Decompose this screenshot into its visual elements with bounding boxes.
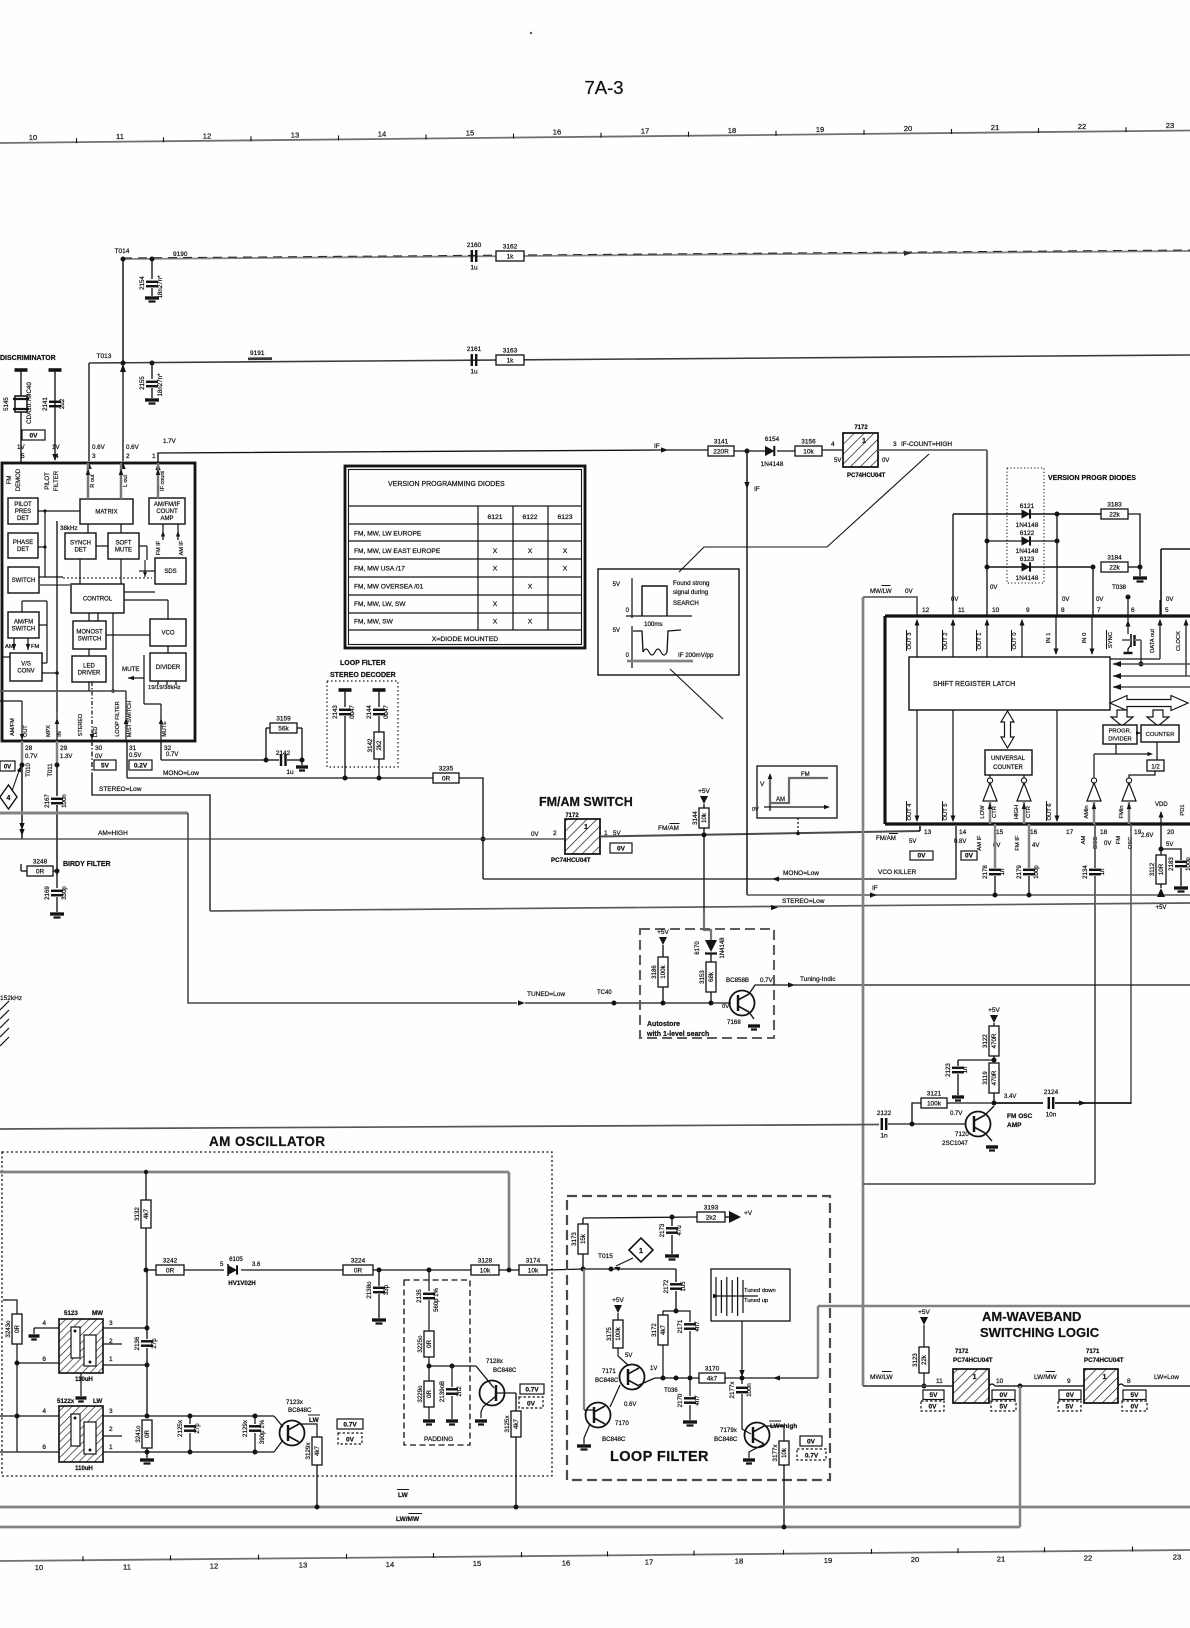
svg-text:0V: 0V [1066, 1392, 1075, 1399]
block SYNCH DET [65, 533, 96, 559]
ceramic discriminator 5145 CDA10.7MC40 [15, 368, 28, 372]
block COUNTER [1141, 725, 1179, 742]
svg-text:3174: 3174 [526, 1258, 541, 1265]
svg-text:CDA10.7MC40: CDA10.7MC40 [26, 382, 33, 424]
svg-text:0V: 0V [1131, 1404, 1140, 1411]
capacitor 2178 [994, 824, 996, 868]
svg-text:12: 12 [922, 607, 930, 614]
voltage box 5V pin30 [94, 760, 116, 770]
svg-text:390p 1%: 390p 1% [259, 1419, 266, 1444]
svg-text:18n27n*: 18n27n* [157, 275, 164, 299]
svg-text:T013: T013 [97, 353, 112, 360]
svg-text:+5V: +5V [657, 929, 669, 936]
net FM/AM out [600, 831, 920, 837]
svg-text:3229o: 3229o [417, 1385, 424, 1403]
svg-text:2u2: 2u2 [59, 398, 66, 409]
svg-text:2135: 2135 [416, 1289, 423, 1303]
resistor 3248 [27, 866, 53, 876]
svg-text:BC848C: BC848C [493, 1367, 517, 1374]
svg-text:19/19/38kHz: 19/19/38kHz [148, 685, 181, 691]
svg-text:5145: 5145 [3, 397, 10, 411]
svg-text:T014: T014 [115, 248, 130, 255]
svg-text:3242: 3242 [163, 1258, 178, 1265]
svg-text:SYNC: SYNC [1108, 632, 1114, 648]
svg-text:1: 1 [1102, 1374, 1106, 1381]
resistor 3125x [511, 1411, 521, 1437]
block DIVIDER [150, 653, 186, 681]
svg-text:UNIVERSAL: UNIVERSAL [991, 756, 1026, 762]
svg-text:4: 4 [42, 1320, 46, 1327]
svg-text:BIRDY FILTER: BIRDY FILTER [63, 861, 111, 868]
svg-text:1k: 1k [507, 253, 515, 260]
svg-text:1N4148: 1N4148 [1016, 548, 1039, 555]
svg-text:IN 1: IN 1 [1046, 633, 1052, 644]
dashed box padding [404, 1280, 470, 1445]
svg-text:6: 6 [42, 1356, 46, 1363]
svg-text:IF: IF [754, 486, 760, 493]
svg-text:5122x: 5122x [57, 1398, 75, 1405]
svg-text:13: 13 [924, 829, 932, 836]
svg-text:AM-WAVEBAND: AM-WAVEBAND [982, 1309, 1081, 1324]
svg-text:PC74HCU04T: PC74HCU04T [551, 857, 591, 864]
svg-text:0.6V: 0.6V [624, 1402, 636, 1408]
IC PLL block outline [885, 614, 1190, 617]
svg-text:FM: FM [7, 476, 13, 485]
net AM OSC vertical [1094, 876, 1096, 1184]
net MW/LW long vertical [862, 597, 865, 1386]
svg-text:1n: 1n [999, 868, 1006, 875]
svg-text:MONO=Low: MONO=Low [163, 770, 199, 777]
svg-text:0V: 0V [990, 585, 997, 591]
svg-text:PHASE: PHASE [13, 540, 33, 546]
svg-text:SHIFT REGISTER LATCH: SHIFT REGISTER LATCH [933, 681, 1015, 688]
svg-text:9: 9 [1067, 1378, 1071, 1385]
AM FM arrows below AM/FM SWITCH [13, 638, 15, 650]
svg-text:+5V: +5V [918, 1309, 930, 1316]
svg-text:AM/FM: AM/FM [14, 620, 33, 626]
svg-text:2123: 2123 [945, 1063, 952, 1077]
svg-text:LW/MW: LW/MW [1034, 1374, 1057, 1381]
net LW=Low [1124, 1385, 1190, 1387]
resistor 3229o [424, 1381, 434, 1407]
svg-text:FM: FM [801, 772, 810, 778]
ground below 2123 [952, 1095, 964, 1098]
svg-text:3: 3 [109, 1320, 113, 1327]
svg-text:PC74HCU04T: PC74HCU04T [953, 1357, 993, 1364]
capacitor 2160 [471, 250, 473, 262]
svg-text:4: 4 [42, 1408, 46, 1415]
block SWITCH [8, 567, 39, 593]
svg-text:SOFT: SOFT [116, 541, 132, 547]
svg-text:18: 18 [728, 126, 736, 135]
svg-text:10k: 10k [528, 1267, 539, 1274]
svg-text:0V: 0V [905, 588, 913, 595]
svg-text:Tuned up: Tuned up [744, 1298, 768, 1304]
svg-text:0R: 0R [166, 1267, 175, 1274]
svg-text:6123: 6123 [1020, 556, 1035, 563]
block SDS [155, 558, 186, 584]
svg-text:7120: 7120 [955, 1131, 969, 1138]
svg-text:DET: DET [75, 548, 87, 554]
net AM osc to pin18 horizontal [863, 1183, 1095, 1185]
svg-text:AM IF: AM IF [179, 540, 185, 555]
capacitor 2183 [1161, 849, 1181, 860]
svg-text:1u: 1u [470, 265, 478, 272]
test diamond 4 [0, 785, 17, 809]
svg-text:0.7V: 0.7V [25, 754, 37, 760]
svg-text:STEREO DECODER: STEREO DECODER [330, 672, 396, 679]
resistor 3174 [519, 1265, 547, 1275]
resistor 3159 [270, 723, 297, 733]
svg-text:100p: 100p [1185, 857, 1190, 871]
svg-text:COUNT: COUNT [156, 509, 178, 515]
svg-text:1k: 1k [507, 357, 515, 364]
svg-text:10k: 10k [781, 1447, 788, 1458]
svg-text:2n2: 2n2 [456, 1386, 463, 1397]
svg-text:0V: 0V [1166, 597, 1173, 603]
svg-text:T010: T010 [26, 763, 32, 777]
dotted box AM oscillator [2, 1152, 552, 1476]
svg-text:16: 16 [562, 1558, 570, 1567]
svg-text:OUT 4: OUT 4 [907, 803, 913, 821]
svg-text:16: 16 [553, 128, 561, 137]
svg-text:MONO=Low: MONO=Low [783, 870, 819, 877]
svg-text:HV1V02H: HV1V02H [228, 1280, 256, 1287]
svg-text:2141: 2141 [42, 397, 49, 411]
svg-text:AM/FM: AM/FM [10, 718, 16, 736]
svg-text:COUNTER: COUNTER [993, 765, 1023, 771]
svg-text:0V: 0V [617, 846, 626, 853]
node T036 wire [639, 1378, 655, 1385]
svg-text:15: 15 [473, 1559, 481, 1568]
svg-text:Tuned down: Tuned down [744, 1288, 776, 1294]
svg-text:7170: 7170 [615, 1420, 629, 1427]
capacitor 2122 [0, 1125, 879, 1130]
svg-text:11: 11 [123, 1562, 131, 1571]
right edge component box [1160, 549, 1162, 616]
svg-text:6123: 6123 [557, 514, 572, 521]
net LW bus [0, 1506, 1190, 1509]
net TUNED=Low [0, 812, 188, 815]
svg-text:3177x: 3177x [772, 1444, 779, 1462]
svg-text:X=DIODE MOUNTED: X=DIODE MOUNTED [432, 636, 498, 643]
svg-text:FM, MW, SW: FM, MW, SW [354, 619, 394, 626]
svg-text:AM: AM [5, 644, 14, 650]
svg-text:AM=HIGH: AM=HIGH [98, 830, 128, 837]
svg-text:7128x: 7128x [486, 1358, 504, 1365]
svg-text:4n7: 4n7 [694, 1321, 701, 1332]
svg-text:LED: LED [83, 664, 95, 670]
svg-text:6121: 6121 [487, 514, 502, 521]
svg-text:3186: 3186 [651, 965, 658, 979]
internal pin leads R out / L out / IF count [87, 463, 89, 499]
capacitor 2143 [339, 688, 352, 692]
svg-text:29: 29 [60, 745, 68, 752]
svg-text:2178: 2178 [982, 865, 989, 879]
arrow up at T013 [120, 364, 126, 372]
svg-text:0V: 0V [965, 853, 974, 860]
svg-text:HIGH: HIGH [1014, 805, 1020, 820]
svg-text:1: 1 [584, 824, 588, 831]
svg-text:22: 22 [1084, 1553, 1092, 1562]
ground below 2173 [665, 1254, 679, 1257]
svg-text:LW: LW [309, 1417, 320, 1424]
svg-text:2160: 2160 [467, 242, 482, 249]
svg-text:OUT 5: OUT 5 [943, 804, 949, 821]
svg-text:6170: 6170 [695, 941, 701, 955]
resistor 3224 [343, 1265, 373, 1275]
svg-text:DEMOD: DEMOD [16, 468, 22, 491]
svg-text:0.8V: 0.8V [954, 839, 966, 845]
svg-text:0.7V: 0.7V [805, 1453, 819, 1460]
svg-text:10k: 10k [480, 1267, 491, 1274]
inverter bubbles AMin / FMin [1091, 778, 1096, 783]
svg-text:STEREO: STEREO [78, 713, 84, 736]
svg-text:2143: 2143 [332, 705, 339, 719]
svg-text:12: 12 [203, 131, 211, 140]
voltage boxes at 7128x [520, 1384, 544, 1394]
svg-text:0.7V: 0.7V [166, 752, 178, 758]
svg-text:DIVIDER: DIVIDER [1108, 737, 1132, 743]
svg-text:AM/FM/IF: AM/FM/IF [154, 502, 181, 508]
svg-text:3184: 3184 [1107, 555, 1122, 562]
svg-text:7A-3: 7A-3 [584, 77, 623, 98]
svg-text:FM IF: FM IF [1015, 835, 1021, 851]
svg-text:470R: 470R [991, 1070, 998, 1085]
svg-text:IF: IF [872, 885, 878, 892]
resistor 3173 [582, 1218, 584, 1224]
wire pin11 to diode row [952, 514, 954, 616]
svg-text:+5V: +5V [698, 788, 710, 795]
svg-text:AMP: AMP [1007, 1122, 1022, 1129]
svg-text:CTR: CTR [1026, 806, 1032, 818]
dash-dot wire pin30 stereo [91, 741, 93, 774]
svg-text:0R: 0R [144, 1430, 151, 1438]
svg-text:TC40: TC40 [597, 990, 612, 996]
block LED DRIVER [72, 656, 106, 682]
scope gray baseline [627, 660, 693, 663]
capacitor 2141 [49, 368, 62, 372]
svg-text:FM: FM [1116, 836, 1122, 845]
svg-text:38kHz: 38kHz [60, 525, 78, 532]
svg-text:R out: R out [90, 474, 96, 488]
svg-text:2167: 2167 [44, 794, 51, 808]
net IF to right edge [747, 894, 1190, 896]
svg-text:+5V: +5V [612, 1297, 624, 1304]
svg-text:X: X [493, 548, 498, 555]
svg-text:MUTE: MUTE [122, 666, 140, 673]
svg-text:3183: 3183 [1107, 502, 1122, 509]
svg-text:0V: 0V [722, 1004, 729, 1010]
svg-text:STEREO=Low: STEREO=Low [782, 898, 825, 905]
svg-text:1V: 1V [650, 1366, 657, 1372]
ground below 2183 [1174, 886, 1188, 889]
block AM/FM SWITCH [8, 612, 39, 638]
ground below 2138o [372, 1318, 386, 1321]
svg-text:X: X [493, 601, 498, 608]
diode 6170 1N4148 [705, 940, 717, 952]
wire 9191 [89, 355, 1190, 363]
svg-text:11: 11 [958, 607, 965, 614]
svg-text:0V: 0V [882, 458, 889, 464]
svg-text:20: 20 [1167, 829, 1175, 836]
svg-text:15: 15 [996, 829, 1004, 836]
svg-text:FM, MW, LW, SW: FM, MW, LW, SW [354, 601, 406, 608]
net IF vertical [746, 451, 748, 895]
svg-text:3121: 3121 [927, 1091, 942, 1098]
resistor 3225o [424, 1331, 434, 1357]
svg-text:STEREO=Low: STEREO=Low [99, 786, 142, 793]
svg-text:0V: 0V [531, 831, 539, 838]
svg-text:5V: 5V [613, 582, 620, 588]
svg-text:Autostore: Autostore [647, 1021, 680, 1028]
svg-text:2136: 2136 [134, 1336, 141, 1350]
svg-text:18n27n*: 18n27n* [157, 373, 164, 397]
svg-text:0V: 0V [95, 754, 102, 760]
ground below 2155 [145, 398, 159, 401]
svg-text:100k: 100k [660, 964, 667, 978]
capacitor 2172 [670, 1283, 682, 1285]
svg-text:BC858B: BC858B [726, 977, 749, 984]
svg-text:MUTE: MUTE [115, 548, 132, 554]
svg-text:3243o: 3243o [5, 1320, 12, 1338]
svg-text:2138o: 2138o [366, 1281, 373, 1299]
svg-text:2125x: 2125x [177, 1419, 184, 1437]
svg-text:3142: 3142 [367, 738, 374, 752]
capacitor 2170 [689, 1378, 691, 1396]
svg-text:MW/LW: MW/LW [870, 1374, 893, 1381]
svg-text:15: 15 [466, 129, 474, 138]
arrow on 9190 [904, 251, 911, 256]
svg-text:0V: 0V [4, 765, 11, 771]
svg-text:3: 3 [893, 441, 897, 448]
svg-text:3.6: 3.6 [252, 1262, 261, 1268]
scope IF dip waveform [633, 631, 643, 652]
leader from scope box to IF-COUNT wire [679, 454, 929, 572]
svg-text:100n: 100n [746, 1383, 753, 1397]
block SOFT MUTE [108, 533, 139, 559]
resistor 3153 [706, 962, 716, 992]
svg-text:13: 13 [291, 130, 299, 139]
svg-text:SWITCH: SWITCH [78, 637, 102, 643]
IC tuner main block [2, 463, 195, 741]
svg-text:47u: 47u [676, 1225, 683, 1236]
svg-text:OUT 1: OUT 1 [977, 633, 983, 650]
svg-text:3128: 3128 [478, 1258, 493, 1265]
svg-text:AM OSCILLATOR: AM OSCILLATOR [209, 1134, 325, 1149]
net FM OSC vertical pin19 [1130, 824, 1132, 1104]
svg-text:5V: 5V [613, 628, 620, 634]
net LW/MW down to bus [1019, 1386, 1021, 1527]
svg-text:X: X [528, 548, 533, 555]
svg-text:11: 11 [936, 1378, 943, 1385]
svg-text:2161: 2161 [467, 346, 482, 353]
arrow from tuned box onto node [741, 1321, 743, 1370]
wire 3235 to FM/AM inverter [459, 778, 483, 879]
resistor 3241o between LW rows [146, 1365, 148, 1416]
net FM OSC output with cap 2124 [994, 1102, 1043, 1104]
svg-text:3156: 3156 [801, 439, 816, 446]
svg-text:1: 1 [973, 1374, 977, 1381]
svg-text:27p: 27p [194, 1423, 201, 1434]
svg-text:6: 6 [42, 1444, 46, 1451]
svg-text:5123: 5123 [64, 1310, 78, 1317]
svg-text:V/S: V/S [21, 662, 31, 668]
svg-text:2124: 2124 [1044, 1089, 1059, 1096]
svg-text:0V: 0V [30, 433, 39, 440]
svg-text:2170: 2170 [677, 1393, 684, 1407]
svg-text:Found strong: Found strong [673, 580, 710, 587]
net +V via 3193 [583, 1217, 697, 1218]
svg-text:FILTER: FILTER [54, 470, 60, 491]
svg-text:3172: 3172 [651, 1323, 658, 1337]
svg-text:0V: 0V [1096, 597, 1103, 603]
svg-text:23: 23 [1173, 1553, 1181, 1562]
svg-text:0.7V: 0.7V [760, 977, 774, 984]
resistor 3172 [658, 1315, 668, 1345]
svg-text:LOOP FILTER: LOOP FILTER [610, 1449, 709, 1465]
svg-text:110uH: 110uH [75, 1466, 93, 1472]
capacitor 2179 [1028, 824, 1030, 868]
svg-text:2129x: 2129x [242, 1419, 249, 1437]
svg-text:10: 10 [992, 607, 1000, 614]
latch input pins OUT3..OUT0 [916, 620, 918, 657]
svg-text:7123x: 7123x [286, 1399, 304, 1406]
resistor 3177x [779, 1441, 789, 1465]
svg-text:FM, MW OVERSEA /01: FM, MW OVERSEA /01 [354, 583, 424, 590]
resistor 3235 [433, 773, 459, 783]
svg-text:AM IF: AM IF [977, 835, 983, 851]
svg-text:6105: 6105 [229, 1256, 243, 1263]
arrow divider to counter [1137, 732, 1140, 734]
svg-text:3141: 3141 [714, 439, 729, 446]
svg-text:3170: 3170 [705, 1366, 720, 1373]
svg-text:4: 4 [7, 795, 11, 802]
hollow vertical arrow latch-universal counter [1001, 711, 1014, 748]
svg-text:30: 30 [95, 745, 103, 752]
block UNIVERSAL COUNTER [985, 750, 1032, 775]
svg-text:3132: 3132 [134, 1207, 141, 1221]
hollow arrow to progr divider [1111, 710, 1133, 726]
svg-text:2183: 2183 [1168, 857, 1175, 871]
svg-text:15k: 15k [580, 1233, 587, 1244]
svg-text:3235: 3235 [439, 766, 454, 773]
svg-text:5: 5 [21, 453, 25, 460]
svg-text:3125x: 3125x [504, 1415, 511, 1433]
svg-text:CONTROL: CONTROL [83, 597, 113, 603]
svg-text:33p: 33p [383, 1284, 390, 1295]
svg-text:LW: LW [398, 1492, 409, 1499]
svg-text:3248: 3248 [33, 859, 48, 866]
svg-text:TUNED=Low: TUNED=Low [527, 991, 565, 998]
svg-text:17: 17 [645, 1558, 653, 1567]
net LW tank upper [147, 1415, 274, 1417]
scope axis 2 [631, 626, 633, 668]
wire T014-T013 vertical [122, 259, 124, 363]
svg-text:0.7V: 0.7V [950, 1111, 962, 1117]
svg-text:2139oB: 2139oB [439, 1381, 446, 1402]
svg-text:3193: 3193 [704, 1205, 719, 1212]
svg-text:1: 1 [109, 1356, 113, 1363]
svg-text:0R: 0R [14, 1325, 21, 1333]
svg-text:2169: 2169 [44, 886, 51, 900]
bottom ruler [0, 1550, 1190, 1561]
svg-text:0u47: 0u47 [383, 705, 390, 719]
svg-text:6121: 6121 [1020, 503, 1035, 510]
svg-text:3173: 3173 [571, 1232, 578, 1246]
svg-text:T011: T011 [48, 763, 54, 777]
capacitor 2144 [373, 688, 386, 692]
